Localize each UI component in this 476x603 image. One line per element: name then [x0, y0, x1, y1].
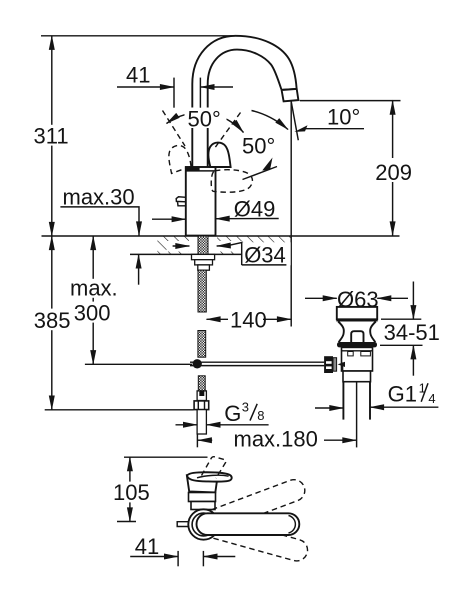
svg-text:max.180: max.180 [234, 426, 318, 451]
svg-text:Ø63: Ø63 [337, 287, 379, 312]
escutcheon inner circle [192, 513, 215, 536]
hose below rod [194, 376, 209, 448]
svg-text:max.30: max.30 [63, 185, 135, 210]
dimension Ø63 [305, 287, 408, 312]
svg-text:34-51: 34-51 [384, 320, 440, 345]
label 50deg first [185, 106, 227, 131]
dimension max.180 [198, 426, 357, 451]
svg-text:41: 41 [126, 63, 150, 88]
spout top view solid [197, 513, 300, 535]
deck slab hatched [157, 235, 291, 255]
105 top reference line [124, 456, 208, 458]
svg-text:4: 4 [428, 391, 435, 406]
dimension Ø34 [167, 241, 291, 267]
drain tailpipe [343, 382, 370, 448]
dimension 209 [300, 101, 412, 236]
svg-text:G: G [224, 401, 241, 426]
svg-text:8: 8 [257, 408, 264, 423]
handle dashed capsule horizontal [211, 170, 252, 192]
lever tab on body left [176, 197, 186, 206]
swivel spout dashed position lower [194, 512, 310, 563]
svg-text:Ø49: Ø49 [234, 197, 276, 222]
faucet body [186, 167, 216, 236]
svg-text:300: 300 [74, 301, 111, 326]
handle swing dashed line left [163, 111, 186, 147]
mounting shank through deck [192, 236, 215, 312]
escutcheon circles [188, 509, 218, 539]
dimension 311 [32, 36, 70, 236]
dimension 34-51 [380, 282, 440, 376]
spout tip 10deg line [291, 102, 298, 141]
leader for second 50deg [243, 158, 278, 180]
svg-text:50°: 50° [188, 106, 221, 131]
svg-text:385: 385 [34, 308, 71, 333]
spout swivel arc arrow [252, 111, 289, 130]
dimension max.300 [68, 236, 192, 364]
deck bottom line [130, 253, 292, 255]
handle top view solid [187, 472, 232, 492]
pop-up rod coupling knob [324, 356, 337, 373]
label 50deg second [240, 134, 282, 159]
dimension 41 top [117, 63, 233, 108]
svg-text:G1: G1 [388, 381, 417, 406]
deck top surface line [42, 235, 400, 237]
dimension 105 [113, 457, 150, 521]
svg-text:41: 41 [135, 534, 159, 559]
supply hose lower with 140 gap [198, 331, 206, 358]
deck right edge / water reference line [290, 102, 292, 327]
handle swing arc 50deg [167, 113, 244, 133]
dimension 140 [207, 307, 292, 332]
svg-text:140: 140 [230, 307, 267, 332]
svg-text:50°: 50° [242, 134, 275, 159]
handle solid capsule [209, 143, 231, 167]
dimension 385 [32, 236, 194, 410]
label 10deg with leader [294, 104, 364, 132]
svg-text:3: 3 [242, 400, 249, 415]
rod ball joint [193, 359, 202, 368]
top reference line [41, 35, 235, 37]
faucet body top view [189, 493, 216, 510]
handle swing dashed line right [214, 113, 241, 150]
label G 3/8 [176, 400, 269, 426]
wall stub left of escutcheon [177, 522, 188, 527]
dimension Ø49 [152, 197, 279, 222]
svg-text:311: 311 [34, 123, 69, 148]
label G1 1/4 [315, 381, 438, 408]
dimension 41 bottom [130, 534, 235, 566]
handle dashed capsule left [163, 143, 192, 174]
handle top view dashed raised [202, 457, 226, 479]
rod clip [338, 362, 345, 371]
pop-up rod horizontal [190, 362, 324, 365]
drain waste flange head [336, 307, 377, 348]
svg-text:Ø34: Ø34 [244, 242, 286, 267]
svg-text:10°: 10° [327, 104, 360, 129]
svg-text:209: 209 [375, 160, 412, 185]
svg-text:max.: max. [70, 275, 118, 300]
swivel spout dashed position upper [193, 477, 308, 537]
label max.30 [60, 185, 139, 285]
spout gooseneck [192, 36, 298, 167]
drain body [342, 347, 373, 381]
svg-text:105: 105 [113, 480, 150, 505]
